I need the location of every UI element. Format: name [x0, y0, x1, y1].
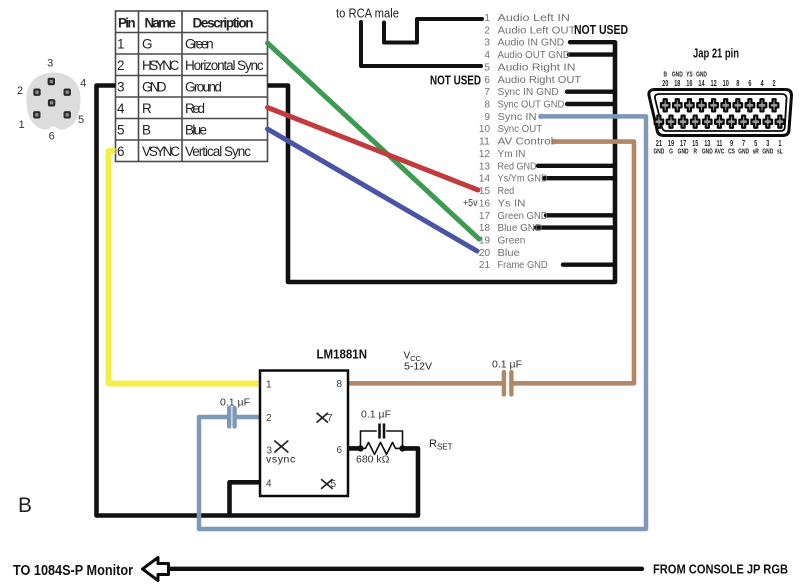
svg-text:3: 3: [117, 79, 125, 94]
svg-text:B: B: [18, 494, 32, 517]
svg-text:5: 5: [78, 114, 84, 126]
SCART pin 6: [746, 99, 755, 111]
svg-text:11: 11: [479, 137, 490, 148]
SCART connector body inner: [655, 94, 787, 131]
SCART pin 9: [727, 116, 736, 128]
svg-text:21: 21: [479, 260, 490, 271]
svg-text:+5v: +5v: [463, 197, 478, 209]
svg-text:6: 6: [484, 75, 490, 86]
wire: Jap21 pin 8 GND stub to bus: [567, 102, 615, 106]
svg-text:6: 6: [49, 131, 55, 143]
SCART pin 2: [770, 99, 779, 111]
wire: Jap21 pin 17 GND stub to bus: [546, 213, 615, 217]
DIN 6-pin connector (console RGB plug face): [17, 58, 86, 143]
svg-text:Jap 21 pin: Jap 21 pin: [693, 47, 739, 61]
pinout table: [116, 11, 268, 162]
svg-text:7: 7: [742, 140, 745, 148]
svg-text:5: 5: [484, 62, 490, 73]
svg-text:12: 12: [479, 149, 490, 160]
svg-text:TO 1084S-P Monitor: TO 1084S-P Monitor: [13, 563, 133, 579]
wire: tan AV-Control pin11 down to LM1881N pin8 (VCC): [514, 142, 635, 384]
wire: Jap21 pin 5 to RCA male shield: [361, 22, 481, 66]
SCART pin 18: [673, 99, 682, 111]
svg-text:2: 2: [266, 413, 272, 424]
svg-text:Audio OUT GND: Audio OUT GND: [498, 50, 570, 61]
svg-text:sL: sL: [777, 149, 783, 156]
svg-text:Pin: Pin: [118, 16, 136, 31]
svg-text:VSYNC: VSYNC: [142, 144, 180, 159]
svg-text:Frame GND: Frame GND: [498, 260, 548, 271]
svg-text:20: 20: [662, 80, 668, 88]
svg-text:19: 19: [668, 140, 674, 148]
svg-text:GND: GND: [142, 79, 167, 94]
svg-text:6: 6: [748, 80, 751, 88]
no-connect X at pin 3: [275, 441, 288, 452]
svg-text:8: 8: [484, 100, 490, 111]
wire: tan segment cap to pin8: [348, 381, 502, 386]
svg-text:18: 18: [479, 223, 490, 234]
DIN pin contact 6: [64, 111, 71, 118]
svg-text:NOT USED: NOT USED: [430, 74, 481, 88]
svg-text:Ys/Ym GND: Ys/Ym GND: [498, 174, 548, 185]
svg-text:HSYNC: HSYNC: [142, 58, 180, 73]
SCART pin 1: [776, 116, 785, 128]
wire: pin6 to resistor: [348, 446, 362, 451]
svg-text:10: 10: [479, 124, 490, 135]
svg-text:Horizontal Sync: Horizontal Sync: [185, 58, 264, 73]
svg-text:Name: Name: [144, 16, 176, 31]
svg-text:Blue: Blue: [185, 122, 207, 137]
svg-text:4: 4: [80, 78, 86, 90]
svg-text:4: 4: [760, 80, 763, 88]
svg-text:13: 13: [479, 161, 490, 172]
svg-text:Sync OUT: Sync OUT: [498, 124, 543, 135]
svg-text:to RCA male: to RCA male: [336, 6, 399, 21]
svg-text:1: 1: [484, 13, 490, 24]
SCART pin 8: [734, 99, 743, 111]
svg-text:8: 8: [736, 80, 739, 88]
svg-text:Vertical Sync: Vertical Sync: [185, 144, 251, 159]
SCART connector body outer: [649, 90, 792, 136]
svg-text:9: 9: [730, 140, 733, 148]
SCART pin 4: [758, 99, 767, 111]
wire: steel blue cap to pin2: [237, 415, 262, 420]
svg-text:B: B: [142, 122, 151, 137]
svg-text:2: 2: [773, 80, 776, 88]
SCART pin 7: [739, 116, 748, 128]
svg-text:CS: CS: [728, 149, 735, 156]
arrow to monitor: [143, 558, 169, 581]
svg-text:2: 2: [17, 85, 23, 97]
svg-text:Audio Right IN: Audio Right IN: [498, 62, 576, 73]
svg-text:12: 12: [710, 80, 716, 88]
wire: Jap21 pin 3 GND stub to bus: [570, 40, 615, 44]
svg-text:0.1 µF: 0.1 µF: [361, 409, 391, 421]
SCART top pin labels: [653, 72, 783, 156]
wire: green G to pin19 Green: [268, 43, 480, 239]
svg-text:Green: Green: [498, 236, 526, 247]
svg-text:Audio Right OUT: Audio Right OUT: [498, 75, 582, 86]
svg-text:1: 1: [18, 119, 24, 131]
SCART pin 10: [721, 99, 730, 111]
svg-text:0.1 µF: 0.1 µF: [492, 359, 522, 371]
svg-text:sR: sR: [753, 149, 760, 156]
svg-text:13: 13: [704, 140, 710, 148]
SCART pin 16: [685, 99, 694, 111]
svg-text:Green: Green: [185, 36, 214, 51]
svg-text:10: 10: [723, 80, 729, 88]
capacitor 0.1uF on VCC wire: [502, 372, 506, 395]
svg-text:20: 20: [479, 248, 490, 259]
svg-text:19: 19: [479, 236, 490, 247]
svg-text:3: 3: [47, 58, 53, 70]
Jap 21 pin signal list: [479, 13, 582, 271]
svg-text:G: G: [142, 36, 153, 51]
wire: Jap21 pin 14 GND stub to bus: [544, 176, 615, 180]
svg-text:5: 5: [117, 122, 125, 137]
svg-text:15: 15: [479, 186, 490, 197]
svg-text:11: 11: [716, 140, 722, 148]
svg-text:GND: GND: [653, 149, 664, 156]
wire: yellow VSYNC from table pin6 to LM1881N pin1: [109, 151, 262, 384]
wire: LM1881N pin4 to ground run: [230, 482, 262, 514]
svg-text:6: 6: [117, 144, 125, 159]
DIN pin contact 1: [48, 78, 55, 85]
svg-text:FROM CONSOLE JP RGB: FROM CONSOLE JP RGB: [653, 562, 788, 577]
svg-text:Audio Left OUT: Audio Left OUT: [498, 25, 577, 36]
svg-text:YS: YS: [686, 72, 693, 79]
svg-text:4: 4: [484, 50, 490, 61]
svg-text:Blue: Blue: [498, 248, 521, 259]
svg-text:8: 8: [337, 379, 343, 390]
SCART pin 12: [709, 99, 718, 111]
SCART pin 21: [655, 116, 664, 128]
no-connect X at pin 5: [322, 480, 332, 489]
svg-text:7: 7: [484, 87, 490, 98]
svg-text:17: 17: [680, 140, 686, 148]
svg-text:14: 14: [698, 80, 704, 88]
svg-text:4: 4: [266, 479, 272, 490]
no-connect X at pin 7: [317, 413, 327, 422]
wire: Jap21 pin 13 GND stub to bus: [538, 164, 615, 168]
svg-text:Ground: Ground: [185, 79, 222, 94]
DIN pin contact 3: [64, 89, 71, 96]
svg-text:15: 15: [692, 140, 698, 148]
svg-text:B: B: [663, 72, 667, 79]
node dot left of RSET: [357, 445, 363, 451]
svg-text:Description: Description: [193, 16, 254, 31]
wire: Jap21 pin 18 GND stub to bus: [536, 225, 615, 229]
svg-text:Ym IN: Ym IN: [498, 149, 526, 160]
svg-text:Ys IN: Ys IN: [498, 198, 526, 209]
svg-text:GND: GND: [762, 149, 773, 156]
SCART pin 15: [691, 116, 700, 128]
svg-text:0.1 µF: 0.1 µF: [220, 397, 250, 409]
node dot right of RSET: [399, 445, 405, 451]
DIN pin contact 5: [33, 111, 40, 118]
wire: Jap21 pin 7 GND stub to bus: [567, 89, 615, 93]
wire: monitor line: [170, 567, 642, 571]
svg-text:4: 4: [117, 101, 125, 116]
wire: table pin3 GND to big loop (right side rectangle + 21pin GND bus): [268, 42, 616, 282]
svg-text:GND: GND: [696, 72, 707, 79]
wire: red R to pin15 Red: [268, 108, 479, 191]
svg-text:Sync IN GND: Sync IN GND: [498, 87, 559, 98]
svg-text:16: 16: [686, 80, 692, 88]
svg-text:GND: GND: [738, 149, 749, 156]
svg-text:GND: GND: [702, 149, 713, 156]
SCART pin 3: [764, 116, 773, 128]
svg-text:LM1881N: LM1881N: [317, 347, 368, 362]
wire: Jap21 pin 21 GND stub to bus: [563, 263, 615, 267]
resistor 680k zigzag: [361, 442, 403, 454]
svg-text:AV Control: AV Control: [498, 137, 554, 148]
svg-text:6: 6: [337, 445, 343, 456]
svg-text:GND: GND: [672, 72, 683, 79]
wire: steel blue Sync IN pin9 down around to LM1881N pin2: [199, 116, 646, 529]
svg-text:680 kΩ: 680 kΩ: [356, 454, 390, 466]
svg-text:17: 17: [479, 211, 490, 222]
SCART pin 11: [715, 116, 724, 128]
SCART pin 20: [661, 99, 670, 111]
svg-text:Green GND: Green GND: [498, 211, 548, 222]
svg-text:21: 21: [656, 140, 662, 148]
svg-text:Audio IN GND: Audio IN GND: [498, 38, 565, 49]
svg-text:2: 2: [117, 58, 125, 73]
svg-text:Sync OUT GND: Sync OUT GND: [498, 100, 565, 111]
table header row: [118, 16, 254, 31]
svg-text:18: 18: [674, 80, 680, 88]
svg-text:R: R: [693, 149, 697, 156]
svg-text:Red: Red: [498, 186, 515, 197]
svg-text:1: 1: [117, 36, 125, 51]
SCART pin 13: [703, 116, 712, 128]
wire: Jap21 pin 1 to RCA male center: [384, 19, 482, 43]
svg-text:G: G: [669, 149, 673, 156]
capacitor 0.1uF on sync wire: [227, 408, 231, 427]
svg-text:R: R: [142, 101, 152, 116]
svg-text:NOT USED: NOT USED: [574, 23, 628, 37]
op-amp/IC U1 LM1881N body: [260, 371, 348, 497]
capacitor 0.1uF loop over resistor: [361, 431, 403, 448]
svg-text:vsync: vsync: [266, 454, 296, 466]
SCART pin 17: [679, 116, 688, 128]
svg-text:Red: Red: [185, 101, 205, 116]
svg-text:1: 1: [266, 380, 272, 391]
svg-text:16: 16: [479, 198, 490, 209]
DIN pin contact 2: [33, 89, 40, 96]
svg-text:Red GND: Red GND: [498, 161, 537, 172]
SCART pin 19: [667, 116, 676, 128]
svg-text:1: 1: [778, 140, 781, 148]
svg-text:3: 3: [484, 38, 490, 49]
svg-text:9: 9: [484, 112, 490, 123]
svg-text:5: 5: [754, 140, 757, 148]
svg-text:5-12V: 5-12V: [404, 361, 432, 373]
SCART pin 5: [751, 116, 760, 128]
svg-text:Sync IN: Sync IN: [498, 112, 537, 123]
wire: table pin3 GND left, down, bottom run to RSET: [97, 86, 419, 516]
svg-text:AVC: AVC: [714, 149, 724, 156]
DIN pin contact 4: [48, 99, 55, 106]
svg-text:3: 3: [766, 140, 769, 148]
svg-text:2: 2: [484, 25, 490, 36]
SCART pin 14: [697, 99, 706, 111]
svg-text:GND: GND: [678, 149, 689, 156]
wire: blue B to pin20 Blue: [268, 129, 478, 251]
svg-text:Audio Left IN: Audio Left IN: [498, 13, 570, 24]
svg-text:14: 14: [479, 174, 490, 185]
wire: Jap21 pin 4 GND stub to bus: [569, 52, 615, 56]
svg-text:Blue GND: Blue GND: [498, 223, 543, 234]
